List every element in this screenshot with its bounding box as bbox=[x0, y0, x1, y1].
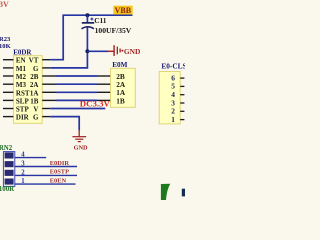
ground GND2 bbox=[72, 130, 88, 152]
right pin stubs (8 pins) bbox=[42, 60, 56, 117]
svg-text:EN: EN bbox=[16, 57, 26, 65]
svg-text:1: 1 bbox=[171, 115, 175, 124]
wire 1B row to E0M bbox=[56, 99, 97, 101]
wire 2B row to E0M bbox=[56, 75, 97, 77]
junction at C11 top bbox=[85, 13, 89, 17]
power port GND1 (horizontal) bbox=[114, 45, 140, 56]
RN2 pin 4 wire bbox=[15, 157, 46, 159]
svg-text:2: 2 bbox=[21, 169, 25, 176]
wire 1A row to E0M bbox=[56, 91, 97, 93]
svg-text:2A: 2A bbox=[30, 81, 39, 89]
wire to GND1 power port bbox=[87, 50, 108, 52]
svg-text:E0DIR: E0DIR bbox=[50, 160, 70, 167]
wire 2A row to E0M bbox=[56, 83, 97, 85]
svg-text:G: G bbox=[33, 65, 39, 73]
svg-text:3: 3 bbox=[21, 161, 25, 168]
connector E0M body bbox=[111, 68, 136, 107]
RN2 pin 1 wire (E0EN) bbox=[15, 183, 76, 185]
resistor network RN2 body bbox=[3, 152, 14, 187]
net label VBB bbox=[113, 6, 132, 15]
E0-CLS right pin stubs (6) bbox=[180, 78, 184, 120]
svg-text:10K: 10K bbox=[0, 43, 12, 50]
logo letter fragment (clipped bottom-right) bbox=[182, 189, 185, 197]
svg-text:C11: C11 bbox=[94, 16, 107, 25]
svg-text:VT: VT bbox=[29, 57, 39, 65]
svg-text:RST: RST bbox=[16, 89, 30, 97]
svg-text:VBB: VBB bbox=[115, 6, 132, 15]
svg-text:V: V bbox=[33, 106, 38, 114]
svg-text:3V: 3V bbox=[0, 0, 9, 9]
svg-text:STP: STP bbox=[16, 106, 30, 114]
svg-text:G: G bbox=[33, 114, 39, 122]
svg-text:100UF/35V: 100UF/35V bbox=[95, 26, 132, 35]
svg-text:DIR: DIR bbox=[16, 114, 30, 122]
svg-text:E0M: E0M bbox=[112, 61, 127, 69]
svg-text:GND: GND bbox=[124, 47, 140, 56]
svg-text:SLP: SLP bbox=[16, 97, 30, 105]
svg-text:1B: 1B bbox=[30, 97, 39, 105]
capacitor C11 bbox=[82, 15, 132, 51]
junction at C11 bottom bbox=[85, 49, 89, 53]
logo green wedge (clipped bottom-right) bbox=[161, 184, 170, 200]
svg-text:4: 4 bbox=[21, 152, 25, 159]
svg-text:1: 1 bbox=[21, 178, 25, 185]
driver block E0DR body bbox=[13, 56, 42, 124]
wire VBB rail with drop to pin EN row bbox=[50, 15, 132, 60]
RN2 pin 3 wire (E0DIR) bbox=[15, 166, 77, 168]
connector E0-CLS body bbox=[159, 72, 180, 124]
svg-text:E0DR: E0DR bbox=[13, 48, 32, 56]
wire V row (DC3.3V) bbox=[50, 108, 105, 110]
svg-text:E0-CLS: E0-CLS bbox=[161, 62, 185, 71]
svg-text:1B: 1B bbox=[116, 96, 125, 105]
wire G row down to GND2 bbox=[50, 117, 79, 131]
svg-text:2B: 2B bbox=[30, 73, 39, 81]
svg-text:100R: 100R bbox=[0, 186, 15, 193]
E0M pin stubs (4) bbox=[97, 76, 111, 100]
RN2 pin 2 wire (E0STP) bbox=[15, 174, 77, 176]
svg-text:M3: M3 bbox=[16, 81, 27, 89]
svg-text:M1: M1 bbox=[16, 65, 27, 73]
svg-text:E0EN: E0EN bbox=[50, 178, 67, 185]
svg-text:DC3.3V: DC3.3V bbox=[80, 99, 111, 109]
wire M1/G row to C11 bottom junction bbox=[50, 53, 87, 68]
left pin stubs (8 pins) bbox=[3, 60, 13, 117]
svg-text:1A: 1A bbox=[30, 89, 39, 97]
svg-text:E0STP: E0STP bbox=[50, 169, 69, 176]
svg-text:RN2: RN2 bbox=[0, 145, 13, 152]
svg-text:M2: M2 bbox=[16, 73, 27, 81]
svg-text:GND: GND bbox=[74, 144, 88, 151]
